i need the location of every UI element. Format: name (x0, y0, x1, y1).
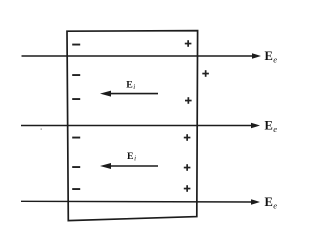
minus charge row4 (72, 137, 80, 139)
svg-text:E: E (126, 79, 133, 90)
internal field arrow E_i lower (100, 163, 158, 169)
minus charge row6 (72, 188, 80, 190)
plus charge row5 (184, 164, 191, 171)
minus charge row2 (72, 74, 80, 76)
dielectric slab outline (67, 31, 198, 221)
plus charge row2 (outside edge) (202, 70, 209, 77)
svg-text:e: e (273, 55, 277, 65)
minus charge row3 (72, 98, 80, 100)
internal field arrow E_i upper (100, 91, 158, 97)
label E_i upper (126, 79, 135, 91)
minus charge row1 (72, 44, 80, 46)
field line E_e bottom (21, 200, 253, 203)
svg-text:e: e (273, 124, 277, 134)
speck noise (41, 129, 43, 130)
label E_e bottom (265, 195, 278, 211)
minus charge row5 (72, 166, 80, 168)
label E_e top (265, 49, 278, 65)
svg-text:e: e (273, 201, 277, 211)
svg-text:i: i (133, 83, 135, 91)
plus charge row6 (184, 185, 191, 192)
svg-text:E: E (127, 151, 134, 162)
field line E_e middle (21, 125, 253, 127)
svg-text:E: E (265, 49, 273, 63)
arrowhead E_e top (252, 53, 261, 59)
svg-text:E: E (265, 119, 273, 133)
plus charge row1 (185, 40, 192, 47)
arrowhead E_e bottom (251, 199, 260, 205)
label E_i lower (127, 151, 136, 163)
arrowhead E_e middle (251, 123, 260, 129)
plus charge row4 (184, 134, 191, 141)
svg-text:i: i (134, 155, 136, 163)
field line E_e top (22, 55, 254, 57)
label E_e middle (265, 119, 278, 135)
svg-text:E: E (265, 195, 273, 209)
plus charge row3 (185, 97, 192, 104)
